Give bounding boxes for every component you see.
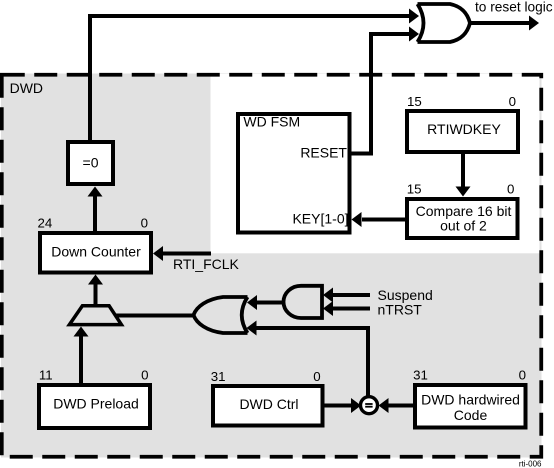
svg-text:0: 0: [509, 94, 516, 109]
box DWD hardwired Code: [415, 385, 526, 428]
box Compare 16 bit out of 2: [407, 199, 518, 238]
svg-text:DWD Preload: DWD Preload: [53, 396, 139, 412]
OR gate OR1: [418, 4, 471, 42]
svg-text:31: 31: [413, 367, 428, 382]
svg-text:KEY[1-0]: KEY[1-0]: [292, 211, 348, 227]
svg-text:rti-006: rti-006: [519, 460, 542, 468]
svg-text:24: 24: [38, 216, 53, 231]
wire OR1 output to reset logic: [470, 21, 530, 25]
comparator equality node: [361, 397, 378, 414]
svg-text:out of 2: out of 2: [440, 218, 487, 234]
AND gate U1 (output left): [284, 286, 323, 318]
box DWD Preload: [39, 385, 150, 428]
wire Compare to KEY[1-0]: [362, 218, 405, 222]
wire DWD hardwired Code to comparator: [387, 404, 415, 408]
wire comparator to OR2 bottom input: [256, 328, 368, 396]
box RTIWDKEY: [407, 111, 518, 152]
wire =0 output to OR1 top input: [90, 16, 410, 142]
wire RTI_FCLK input: [163, 252, 211, 256]
svg-text:0: 0: [313, 369, 320, 384]
wire Down Counter to =0: [93, 195, 97, 231]
wire DWD Ctrl to comparator: [322, 404, 353, 408]
box Down Counter: [40, 233, 151, 273]
svg-text:RESET: RESET: [300, 145, 347, 161]
box DWD Ctrl: [213, 386, 323, 426]
svg-text:15: 15: [407, 94, 422, 109]
svg-text:RTIWDKEY: RTIWDKEY: [427, 121, 501, 137]
box =0: [68, 142, 113, 184]
svg-text:to reset logic: to reset logic: [475, 0, 553, 15]
wire Suspend input: [332, 293, 370, 297]
svg-text:DWD Ctrl: DWD Ctrl: [239, 396, 298, 412]
wire nTRST input: [332, 307, 370, 311]
svg-text:WD FSM: WD FSM: [243, 114, 300, 130]
svg-text:DWD: DWD: [10, 80, 43, 96]
mux MUX1: [69, 306, 121, 325]
svg-text:0: 0: [141, 368, 148, 383]
wire OR2 output to MUX select: [115, 314, 194, 318]
svg-text:=0: =0: [83, 155, 99, 171]
svg-text:RTI_FCLK: RTI_FCLK: [173, 256, 240, 272]
svg-text:11: 11: [39, 368, 53, 383]
OR gate OR2 (output left): [194, 297, 248, 333]
box WD FSM: [238, 114, 350, 233]
svg-text:0: 0: [519, 367, 526, 382]
wire DWD Preload to MUX: [79, 336, 83, 385]
wire RTIWDKEY to Compare: [461, 152, 465, 188]
wire RESET to OR1 bottom input: [349, 34, 409, 154]
wire AND output to OR2 top input: [256, 301, 285, 305]
svg-text:0: 0: [141, 216, 148, 231]
white region behind WD FSM: [211, 74, 540, 253]
DWD dashed border: [2, 75, 542, 457]
svg-text:Code: Code: [454, 407, 488, 423]
svg-text:15: 15: [407, 181, 422, 196]
wire MUX to Down Counter: [94, 284, 98, 305]
svg-text:nTRST: nTRST: [378, 302, 423, 318]
svg-text:DWD hardwired: DWD hardwired: [421, 392, 520, 408]
svg-text:31: 31: [211, 369, 226, 384]
svg-text:0: 0: [507, 181, 514, 196]
svg-text:Down Counter: Down Counter: [51, 244, 141, 260]
